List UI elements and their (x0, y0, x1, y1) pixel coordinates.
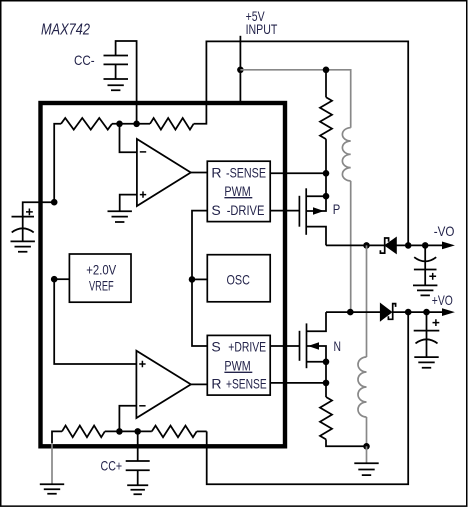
box +2.0V VREF (69, 254, 131, 302)
capacitor +VO output (polarized) (414, 312, 440, 357)
ground (bottom right) (354, 463, 378, 475)
svg-text:+2.0V: +2.0V (86, 262, 116, 278)
inductor L2 (358, 357, 366, 417)
wire +SENSE (PWM2 to sense node) (270, 382, 326, 384)
arrow +VO output (442, 308, 455, 316)
diode D1 schottky (to -VO) (380, 238, 396, 254)
node feedback / VREF (51, 276, 58, 283)
resistor (top-left of divider) (61, 118, 112, 130)
wire top row left lead down to feedback column (54, 124, 61, 202)
wire -SENSE (PWM1 to sense node) (270, 172, 326, 174)
label CC+ (101, 458, 123, 474)
wire bottom left stub (grey) (51, 443, 53, 484)
label MAX742 (41, 22, 90, 39)
svg-text:N: N (334, 338, 342, 354)
ground (under CC- cap) (104, 79, 129, 90)
wire rail to P sense resistor (325, 70, 327, 98)
wire U2 output to PWM2 (191, 383, 207, 385)
node bottom divider / U2 minus (116, 428, 123, 435)
ground (U1 plus input) (108, 211, 132, 222)
wire L2 to ground node (grey net) (366, 417, 368, 446)
op-amp U2 (lower comparator) (136, 351, 191, 418)
svg-text:R: R (211, 375, 221, 391)
svg-text:+DRIVE: +DRIVE (228, 339, 266, 355)
node rail / P sense resistor (323, 67, 330, 74)
wire U1 minus input (120, 124, 137, 153)
wire U1 output to PWM1 (191, 172, 208, 174)
node P-FET source (323, 193, 330, 200)
label +VO (432, 292, 453, 308)
wire +VO switch row (326, 311, 380, 313)
wire U2 minus input (119, 406, 136, 432)
wire ground node stub (grey) (366, 446, 368, 463)
op-amp U1 (upper comparator) (137, 139, 191, 206)
wire +5V rail to inductor L1 (grey net) (240, 70, 350, 128)
svg-text:-SENSE: -SENSE (226, 164, 266, 180)
resistor (N-side current sense) (320, 397, 332, 439)
wire -VO switch node to inductor L2 (grey net) (366, 245, 368, 357)
resistor (bottom-left of divider) (62, 426, 105, 438)
transistor N-channel MOSFET (300, 312, 327, 368)
svg-text:+VO: +VO (432, 292, 453, 308)
ground (under -VO cap) (413, 285, 437, 295)
wire between bottom row resistors (105, 430, 152, 432)
node -VO / output cap (422, 242, 429, 249)
label -VO (434, 223, 455, 239)
wire sense resistor to P source node (325, 139, 327, 173)
node +VO / output cap (423, 309, 430, 316)
capacitor CC+ (126, 461, 150, 485)
node -VO / +5V feedback wire (405, 242, 412, 249)
node +VO switch / L1 (347, 309, 354, 316)
svg-text:+SENSE: +SENSE (226, 375, 267, 391)
svg-text:S: S (211, 339, 220, 355)
label +5V INPUT (246, 8, 278, 37)
resistor (bottom-right of divider) (152, 426, 197, 438)
wire to external filter cap (23, 202, 55, 216)
svg-text:PWM: PWM (224, 183, 250, 199)
resistor (top-right of divider) (150, 118, 194, 130)
wire N source to sense node (325, 362, 327, 383)
wire OSC to node (192, 278, 207, 280)
node oscillator output (189, 276, 196, 283)
label P (333, 201, 341, 217)
wire U1 plus input to ground (120, 195, 137, 212)
svg-text:R: R (211, 164, 221, 180)
node ground (L2 / N sense) (363, 443, 370, 450)
capacitor external (polarized, left) (12, 209, 35, 242)
node +5V rail (237, 67, 244, 74)
node (top divider / CC- pin) (133, 121, 140, 128)
wire +VO feedback loop (bottom) (207, 312, 409, 484)
IC MAX742 boundary box (41, 103, 286, 446)
ground (under external cap) (11, 241, 35, 251)
wire L1 to +VO switch node (grey net) (350, 181, 352, 312)
wire N sense resistor to ground node (326, 439, 367, 446)
wire CC+ pin to cap (137, 431, 139, 461)
arrow -VO output (442, 242, 455, 250)
box OSC oscillator (207, 255, 270, 302)
box PWM2 (S +DRIVE / R +SENSE) (207, 335, 270, 395)
svg-text:CC+: CC+ (101, 458, 123, 474)
inductor L1 (342, 128, 350, 181)
wire bottom row left lead to ground (52, 431, 62, 443)
wire diode to -VO output (396, 244, 442, 246)
wire +5V input to IC (239, 36, 241, 101)
node (top divider / comparator minus) (116, 121, 123, 128)
svg-text:S: S (211, 202, 220, 218)
wire between top row resistors (112, 123, 150, 125)
svg-text:-VO: -VO (434, 223, 455, 239)
wire -VO feedback loop (top) (194, 41, 409, 245)
wire PWM1 S input from oscillator (192, 211, 207, 346)
wire diode to +VO output (393, 311, 442, 313)
wire -DRIVE (PWM1 to P gate) (270, 210, 299, 212)
wire VREF to feedback column (54, 278, 69, 280)
capacitor CC- (104, 56, 129, 80)
capacitor -VO output (polarized) (414, 245, 437, 285)
node bottom divider / CC+ pin (134, 428, 141, 435)
svg-text:VREF: VREF (89, 278, 114, 294)
svg-text:-DRIVE: -DRIVE (227, 202, 265, 218)
ground (under CC+ cap) (127, 485, 148, 494)
ground (bottom left) (40, 484, 64, 494)
svg-text:INPUT: INPUT (246, 21, 278, 37)
node +VO / feedback wire (405, 309, 412, 316)
wire +DRIVE (PWM2 to N gate) (270, 345, 299, 347)
label N (334, 338, 342, 354)
box PWM1 (R -SENSE / S -DRIVE) (207, 161, 270, 221)
svg-text:P: P (333, 201, 341, 217)
wire feedback column to U2 plus input (54, 279, 136, 364)
svg-text:MAX742: MAX742 (41, 22, 90, 39)
node -VO switch / L2 (363, 242, 370, 249)
node feedback / external cap (51, 199, 58, 206)
svg-text:PWM: PWM (224, 358, 250, 374)
wire -VO switch row (326, 244, 385, 246)
wire CC- cap to IC top resistor node (116, 41, 137, 124)
node -SENSE (323, 170, 330, 177)
diode D2 schottky (to +VO) (380, 304, 395, 321)
resistor (P-side current sense) (320, 97, 332, 139)
node N-FET source (323, 359, 330, 366)
transistor P-channel MOSFET (299, 188, 326, 245)
wire bottom row right lead (197, 430, 207, 432)
label CC- (74, 52, 95, 68)
svg-text:OSC: OSC (227, 272, 250, 288)
ground (under +VO cap) (414, 357, 438, 368)
svg-text:CC-: CC- (74, 52, 95, 68)
node +SENSE (323, 380, 330, 387)
wire sense node to N sense resistor (325, 383, 327, 397)
wire sense node to P-FET source (325, 173, 327, 196)
